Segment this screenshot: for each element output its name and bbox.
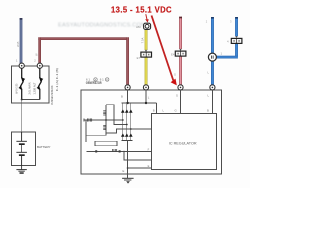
svg-text:E: E: [148, 164, 150, 168]
wire blue L to charge lamp: [211, 17, 214, 85]
terminal B generator: [125, 85, 130, 90]
svg-text:E: E: [123, 169, 125, 173]
svg-text:AM: AM: [136, 25, 141, 29]
battery ground: [16, 166, 26, 174]
brushes: [95, 150, 97, 152]
link bottom bus: [22, 99, 40, 101]
svg-text:2: 2: [206, 20, 208, 24]
S wire to regulator: [180, 90, 182, 114]
svg-text:S: S: [176, 94, 178, 98]
wire to battery: [21, 100, 23, 133]
fusible link ALT: [37, 68, 44, 99]
stator coil ticks: [88, 111, 107, 130]
diodes top row: [121, 109, 133, 113]
wire yellow fuse to B junction: [145, 30, 148, 85]
generator connector codes: [86, 78, 109, 82]
svg-text:E4: E4: [171, 52, 175, 56]
B bus wire: [122, 90, 157, 114]
svg-text:1.25B ALT: 1.25B ALT: [33, 82, 37, 94]
svg-text:W: W: [34, 53, 38, 56]
svg-text:B: B: [121, 95, 123, 99]
leader arrow to S terminal: [152, 16, 174, 82]
phase wire bottom: [106, 129, 152, 133]
watermark: [58, 22, 146, 28]
svg-text:F-1 (A) F-1 (B): F-1 (A) F-1 (B): [55, 68, 59, 91]
svg-text:BATTERY: BATTERY: [37, 145, 51, 149]
terminal 2 fusible link: [37, 63, 42, 68]
terminal 1 fusible link: [19, 63, 24, 68]
leader arrow to fuse connector: [146, 14, 147, 20]
battery cells: [16, 132, 27, 166]
rotor coil ticks: [113, 149, 117, 152]
ground wire from bridge: [127, 141, 129, 179]
svg-text:S: S: [174, 73, 176, 77]
svg-text:GENERATOR: GENERATOR: [86, 81, 102, 85]
svg-text:B: B: [153, 109, 155, 113]
charge lamp: [208, 53, 216, 61]
diodes bottom row: [121, 133, 133, 137]
svg-text:B: B: [207, 109, 209, 113]
svg-text:13.5 - 15.1 VDC: 13.5 - 15.1 VDC: [111, 6, 172, 15]
svg-text:L: L: [208, 71, 210, 75]
wire blue ignition feed right: [217, 17, 238, 58]
fusible link MAIN: [19, 68, 26, 99]
inline connector on right blue wire: [231, 36, 242, 43]
svg-text:W-B: W-B: [16, 41, 20, 47]
wire blue W-B to fusible link: [20, 18, 23, 63]
rotor junction: [123, 151, 124, 152]
svg-text:E7: E7: [137, 56, 141, 60]
generator ground: [122, 178, 134, 180]
terminal S generator: [178, 85, 183, 90]
rotor field coil: [87, 141, 152, 151]
svg-text:7.5A: 7.5A: [141, 38, 145, 44]
stator windings: [84, 105, 123, 142]
battery box: [11, 132, 35, 166]
svg-text:3: 3: [230, 20, 232, 24]
svg-text:G: G: [175, 109, 177, 113]
fusible link block label: [50, 68, 59, 105]
wire maroon battery feed horizontal: [38, 37, 128, 40]
svg-text:FUSIBLE LINK BLOCK: FUSIBLE LINK BLOCK: [50, 85, 54, 104]
phase wire top: [106, 105, 127, 125]
svg-text:2.0L MAIN: 2.0L MAIN: [27, 82, 31, 94]
svg-text:4: 4: [227, 39, 229, 43]
svg-text:W-B 0.85: W-B 0.85: [15, 83, 18, 94]
svg-text:IC REGULATOR: IC REGULATOR: [169, 141, 197, 145]
wire pink S sense: [179, 17, 182, 85]
svg-text:2: 2: [34, 59, 36, 63]
inline connector on pink wire: [175, 49, 186, 56]
terminal L generator: [210, 85, 215, 90]
wire maroon drop to fusible link: [38, 37, 41, 63]
IC regulator box: [151, 114, 216, 170]
stator node: [105, 119, 107, 121]
fuse connector AM2: [144, 23, 151, 29]
svg-text:EASYAUTODIAGNOSTICS.COM: EASYAUTODIAGNOSTICS.COM: [58, 22, 146, 28]
L wire to regulator: [211, 90, 213, 114]
generator box: [81, 90, 222, 174]
diode bridge columns: [121, 103, 132, 141]
svg-text:1: 1: [221, 52, 223, 56]
inline connector on yellow wire: [141, 50, 152, 57]
svg-text:1: 1: [16, 59, 18, 63]
terminal B2 generator: [143, 85, 148, 90]
fusible link block box: [11, 66, 49, 103]
wire maroon drop to generator B terminal: [126, 37, 129, 84]
